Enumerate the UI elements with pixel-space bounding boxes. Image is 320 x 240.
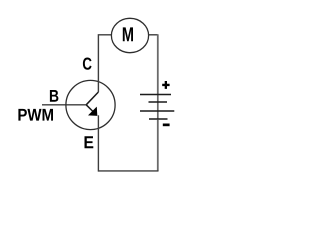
battery BT1 plate 3 long	[140, 110, 174, 112]
node PWM label	[18, 109, 53, 121]
transistor Q1 collector diagonal	[86, 92, 98, 105]
motor M1 body circle	[111, 18, 148, 52]
motor M1 label M	[123, 27, 133, 41]
transistor Q1 emitter arrow	[89, 107, 97, 115]
pin label E (emitter)	[85, 136, 94, 148]
battery negative label -	[163, 124, 170, 127]
transistor Q1 emitter diagonal	[86, 105, 94, 113]
wire collector vertical (Q1 to motor)	[98, 35, 111, 92]
wire motor to battery positive	[149, 34, 158, 36]
battery BT1 plate 2 short	[149, 101, 168, 103]
transistor Q1 (NPN) body circle	[66, 80, 115, 129]
wire battery negative to bottom rail	[157, 120, 159, 171]
battery BT1 plate 4 short (negative)	[149, 118, 168, 120]
wire base (PWM input to Q1 base)	[42, 104, 86, 106]
battery positive label +	[162, 81, 169, 89]
wire through battery	[157, 94, 159, 120]
pin label B (base)	[50, 90, 59, 102]
wire emitter vertical to bottom rail	[97, 115, 99, 171]
battery BT1 plate 1 long (positive)	[140, 94, 171, 96]
pin label C (collector)	[83, 58, 92, 70]
wire bottom rail	[98, 170, 158, 172]
